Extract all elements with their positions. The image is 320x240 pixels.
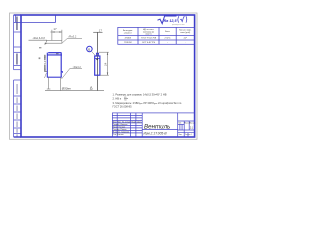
TITLE BLOCK <box>112 113 194 137</box>
svg-text:клея (раб): клея (раб) <box>180 32 190 34</box>
raw stock top lines <box>46 40 62 43</box>
svg-text:√Ra3,2: √Ra3,2 <box>68 35 77 39</box>
centerline <box>97 32 99 90</box>
title block left section rows <box>112 114 142 116</box>
left column bottom rotated texts <box>17 84 18 137</box>
svg-text:24: 24 <box>104 62 108 66</box>
datum leader line <box>29 40 48 44</box>
svg-text:1. Размеры для справок: 14±0,5: 1. Размеры для справок: 14±0,5 30×45° 2 … <box>113 92 167 96</box>
svg-text:2 ЧГС: 2 ЧГС <box>165 38 171 40</box>
svg-text:Болт: Болт <box>165 31 170 33</box>
svg-text:ГОСТ Р-52 768: ГОСТ Р-52 768 <box>141 38 157 40</box>
parameters table <box>118 27 195 44</box>
svg-text:17: 17 <box>99 28 103 32</box>
top dimension <box>50 30 62 44</box>
workpiece bar nub (blue) <box>96 53 98 56</box>
small mark left of dimension <box>39 57 41 59</box>
svg-text:Лит.: Лит. <box>178 123 182 125</box>
small mark below annotation <box>39 47 41 48</box>
svg-text:2. НВ и: 2. НВ и <box>113 97 122 101</box>
svg-text:√Ra1,6√0,8: √Ra1,6√0,8 <box>33 37 46 40</box>
title block left section verticals <box>116 113 118 137</box>
dark mark inside top band <box>56 53 59 54</box>
workpiece shaft right edge (blue) <box>60 53 62 78</box>
svg-text:Б: Б <box>88 47 90 51</box>
svg-text:ГОСТ 26.008-85: ГОСТ 26.008-85 <box>113 104 133 108</box>
bottom delta symbol <box>90 86 92 89</box>
svg-text:(болт): (болт) <box>146 34 152 36</box>
left additional column bottom group <box>14 80 21 137</box>
left vertical dimension <box>44 55 46 72</box>
svg-text:Н.контр. Сидоров: Н.контр. Сидоров <box>113 132 129 134</box>
svg-text:размеры в мм: размеры в мм <box>172 24 185 26</box>
workpiece shaft (blue) <box>47 53 62 78</box>
top bar <box>93 31 102 33</box>
svg-text:Ra 12,5: Ra 12,5 <box>164 19 178 23</box>
svg-text:Листов 1: Листов 1 <box>185 134 192 136</box>
workpiece right step nub (blue) <box>61 71 62 73</box>
svg-text:Лист: Лист <box>179 134 183 136</box>
svg-text:элемент: элемент <box>124 33 132 35</box>
roughness leader top right <box>62 38 82 43</box>
workpiece bar (blue) <box>95 56 100 75</box>
roughness tick on shaft lower-left <box>45 73 47 78</box>
left additional column top group <box>14 15 21 70</box>
svg-text:17: 17 <box>53 27 57 31</box>
frame extension over left column <box>14 14 21 16</box>
svg-text:Масшт.: Масшт. <box>190 123 196 125</box>
svg-text:П13СМ: П13СМ <box>124 42 132 44</box>
workpiece bar inner line <box>95 58 100 60</box>
svg-text:√Ra3,2: √Ra3,2 <box>73 65 82 69</box>
baseline <box>45 90 104 92</box>
circle leader <box>92 51 96 56</box>
note 2 fraction <box>124 97 126 102</box>
svg-text:ОСТ 4-87 РЭ: ОСТ 4-87 РЭ <box>142 42 156 44</box>
left column rotated text block 2 <box>16 54 18 65</box>
roughness leader bottom right <box>62 68 83 79</box>
right section header texts <box>178 123 196 136</box>
page sheet <box>0 0 220 147</box>
left column rotated text block 1 <box>16 17 18 31</box>
svg-text:Изм 2.1Т.005-В: Изм 2.1Т.005-В <box>144 132 168 136</box>
svg-text:2П403: 2П403 <box>125 38 132 40</box>
workpiece top band tint <box>47 53 61 55</box>
view circle Б <box>87 46 93 52</box>
table row 2 text <box>124 42 186 44</box>
svg-text:Утв. Козлов: Утв. Козлов <box>113 134 124 136</box>
top-left designation box <box>14 15 56 22</box>
drawing frame <box>21 15 195 137</box>
shaft below part <box>47 77 61 91</box>
roughness symbol top right <box>158 16 187 24</box>
technical requirements notes <box>113 92 167 100</box>
svg-text:Вентиль: Вентиль <box>144 124 170 131</box>
svg-text:2-Р: 2-Р <box>184 38 188 40</box>
right section <box>177 113 179 137</box>
table header text <box>123 29 192 35</box>
table row 1 text <box>125 38 188 40</box>
middle cell divider <box>142 128 178 130</box>
title block signature texts <box>113 121 143 137</box>
svg-text:Ø50вн: Ø50вн <box>61 87 71 91</box>
right dimension extension lines <box>99 52 109 75</box>
dark dot inside bar top <box>96 58 98 60</box>
